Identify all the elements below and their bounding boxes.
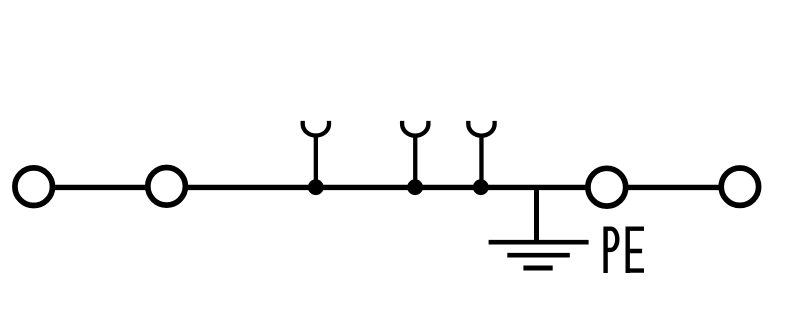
terminal circle X4 [721, 168, 758, 205]
junction dot J3 [473, 179, 489, 195]
terminal circle X2 [148, 168, 186, 206]
wire W3 (terminal 3 to terminal 4) [626, 185, 722, 190]
terminal circle X1 [15, 168, 53, 206]
wire W1 (terminal 1 to terminal 2) [54, 185, 148, 190]
terminal circle X3 [588, 168, 626, 206]
plug contact Y1 [303, 121, 329, 187]
ground PE symbol [489, 187, 589, 268]
junction dot J1 [308, 179, 324, 195]
wire W2 (bus: terminal 2 to terminal 3) [185, 185, 588, 190]
junction dot J2 [407, 179, 423, 195]
plug contact Y3 [468, 121, 494, 187]
label PE [604, 227, 644, 273]
plug contact Y2 [402, 121, 428, 187]
